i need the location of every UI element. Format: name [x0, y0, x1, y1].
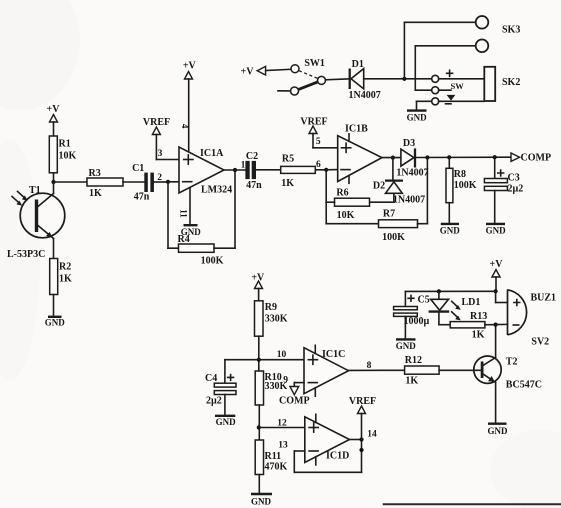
svg-text:+V: +V [183, 61, 197, 72]
svg-text:R9: R9 [265, 302, 277, 313]
svg-text:R7: R7 [383, 209, 395, 220]
op-amp IC1B [338, 124, 382, 184]
+V symbol (above R9) [251, 273, 265, 301]
svg-text:330K: 330K [265, 314, 288, 325]
svg-text:10K: 10K [337, 210, 355, 221]
+V symbol (above BUZ1) [490, 259, 504, 291]
resistor R3 [87, 168, 144, 199]
svg-text:VREF: VREF [349, 396, 376, 407]
wire node J to C4 [225, 360, 259, 384]
ground below C3 [486, 224, 507, 235]
svg-text:+V: +V [241, 67, 255, 78]
pin 8 wire (IC1C output) [349, 361, 405, 371]
svg-text:R5: R5 [282, 154, 294, 165]
wire buzzer - to node P [496, 323, 508, 325]
node L (IC1D output) [359, 437, 363, 441]
svg-text:R1: R1 [59, 139, 71, 150]
jack plug pin - [432, 98, 485, 105]
VREF symbol (IC1D output) [349, 396, 376, 440]
wire IC1A output to C2 [224, 169, 245, 171]
wire +V rail to C5/LED [405, 290, 495, 292]
feedback wire node E down to R7 [326, 170, 378, 224]
svg-text:C4: C4 [205, 373, 217, 384]
capacitor C5 [394, 291, 430, 339]
transistor T1 phototransistor [7, 182, 65, 260]
wire SW1 to D1 [326, 79, 350, 80]
node A (R1/R3/T1 collector junction) [51, 180, 55, 184]
svg-text:100K: 100K [201, 256, 224, 267]
svg-text:C5: C5 [418, 295, 430, 306]
op-amp IC1A [179, 147, 232, 196]
svg-text:100K: 100K [454, 180, 477, 191]
node K (R10/R11 divider tap) [257, 425, 261, 429]
svg-text:IC1B: IC1B [345, 124, 368, 135]
svg-text:R4: R4 [178, 234, 190, 245]
capacitor C3 [484, 157, 523, 223]
svg-text:2µ2: 2µ2 [206, 396, 222, 407]
svg-text:1N4007: 1N4007 [396, 167, 428, 178]
svg-text:IC1D: IC1D [326, 451, 349, 462]
op-amp IC1C [304, 345, 349, 396]
svg-text:SK2: SK2 [502, 77, 520, 88]
ground below R11 [251, 494, 272, 507]
VREF symbol (IC1B pin 5) [300, 117, 337, 148]
svg-text:1K: 1K [405, 376, 418, 387]
svg-text:GND: GND [486, 225, 507, 235]
node C (IC1A output) [233, 168, 237, 172]
ground at SK2 - pin [407, 101, 432, 122]
svg-text:2µ2: 2µ2 [508, 184, 524, 195]
pin 11 wire and label [179, 188, 191, 225]
svg-text:1N4007: 1N4007 [393, 195, 425, 206]
resistor R5 [281, 154, 327, 190]
svg-text:10K: 10K [59, 151, 77, 162]
R4 to output wire [214, 170, 235, 248]
svg-text:9: 9 [283, 376, 288, 386]
svg-text:D1: D1 [352, 59, 364, 70]
svg-text:SK3: SK3 [502, 25, 520, 36]
resistor R6 [326, 188, 369, 222]
ground below T2 [488, 424, 509, 436]
svg-text:C3: C3 [508, 173, 520, 184]
svg-text:47n: 47n [246, 180, 262, 191]
svg-text:LD1: LD1 [462, 297, 481, 308]
svg-text:IC1A: IC1A [200, 148, 224, 159]
ground at IC1A pin 11 [181, 225, 202, 237]
ground below C5 [396, 339, 417, 351]
svg-text:L-53P3C: L-53P3C [7, 249, 45, 260]
svg-text:BC547C: BC547C [506, 380, 542, 391]
svg-text:SV2: SV2 [531, 337, 549, 348]
node B (C1/pin2/R4 junction) [166, 180, 170, 184]
light arrows into T1 [12, 192, 28, 206]
resistor R1 [49, 136, 76, 182]
resistor R12 [405, 355, 481, 387]
diode D1 [348, 59, 431, 101]
capacitor C2 [245, 151, 280, 191]
resistor R4 [178, 234, 224, 267]
jack plug pin SW [415, 81, 464, 101]
wire node E to IC1B [326, 169, 338, 171]
svg-text:1000µ: 1000µ [404, 316, 430, 327]
COMP output arrow [511, 153, 551, 164]
svg-text:100K: 100K [382, 232, 405, 243]
node G (D3 cathode / R7) [425, 155, 429, 159]
node O (LED top) [437, 289, 441, 293]
resistor R7 [379, 158, 428, 244]
svg-text:D2: D2 [373, 181, 385, 192]
T2 collector wire [495, 325, 497, 358]
svg-text:13: 13 [278, 441, 288, 451]
svg-text:R13: R13 [470, 311, 487, 322]
resistor R8 [446, 157, 477, 223]
wire IC1D output [350, 439, 362, 441]
wire node N to buzzer + [496, 291, 508, 302]
feedback wire node B down to R4 [167, 182, 169, 248]
node E (IC1B inverting input) [324, 168, 328, 172]
wire D3 to COMP [415, 156, 511, 158]
node P (R13/buzzer-/collector) [494, 323, 498, 327]
buzzer BUZ1 [508, 290, 557, 348]
page border fragment (bottom right) [383, 503, 561, 505]
svg-text:R11: R11 [265, 451, 282, 462]
IC1D feedback wire (output to pin 13) [294, 440, 361, 473]
node J (R9/R10 divider tap) [257, 358, 261, 362]
wire node A to R3 [54, 181, 88, 183]
diode D3 [396, 138, 428, 178]
svg-text:C1: C1 [132, 163, 144, 174]
svg-text:COMP: COMP [279, 395, 310, 406]
svg-text:R3: R3 [89, 168, 101, 179]
resistor R10 [255, 371, 287, 440]
transistor T2 [474, 356, 542, 391]
svg-text:GND: GND [216, 417, 237, 427]
svg-text:GND: GND [396, 341, 417, 351]
svg-text:LM324: LM324 [201, 185, 232, 196]
svg-text:GND: GND [488, 426, 509, 436]
svg-text:R6: R6 [336, 188, 348, 199]
svg-text:IC1C: IC1C [322, 349, 345, 360]
resistor R13 [439, 311, 496, 341]
socket SK2 [484, 67, 520, 101]
VREF symbol (IC1A pin 3) [143, 117, 179, 160]
LED LD1 [429, 291, 481, 324]
svg-text:GND: GND [251, 497, 272, 507]
svg-text:VREF: VREF [300, 117, 327, 128]
COMP input arrow (IC1C pin 9) [279, 383, 310, 407]
svg-text:GND: GND [407, 113, 428, 123]
svg-text:R8: R8 [454, 169, 466, 180]
op-amp IC1D [305, 414, 350, 465]
node D (+V rail / SK3 junction) [402, 77, 406, 81]
svg-text:10: 10 [277, 350, 287, 360]
resistor R2 [50, 259, 72, 317]
svg-text:D3: D3 [403, 138, 415, 149]
svg-text:8: 8 [367, 361, 372, 371]
pin 10 wire to IC1C [259, 350, 304, 360]
svg-text:1N4007: 1N4007 [348, 90, 380, 101]
ground below R8 [440, 224, 461, 235]
pin 12 wire to IC1D [259, 419, 305, 429]
svg-text:GND: GND [45, 318, 66, 328]
+V rail symbol (above R1) [47, 104, 61, 136]
svg-text:14: 14 [367, 430, 377, 440]
node M (feedback junction) [359, 448, 363, 452]
svg-text:47n: 47n [134, 192, 150, 203]
svg-text:BUZ1: BUZ1 [531, 293, 557, 304]
svg-text:4: 4 [180, 124, 190, 129]
svg-text:6: 6 [316, 160, 321, 170]
+V symbol (IC1A pin 4) [183, 61, 197, 152]
svg-text:3: 3 [158, 149, 163, 159]
svg-text:1: 1 [241, 161, 246, 171]
svg-text:1K: 1K [472, 329, 485, 340]
ground below C4 [215, 416, 236, 427]
diode D2 [370, 158, 426, 206]
svg-text:5: 5 [316, 137, 321, 147]
svg-text:R2: R2 [59, 262, 71, 273]
svg-text:1K: 1K [281, 178, 294, 189]
node H (R8 top) [447, 155, 451, 159]
svg-text:SW1: SW1 [304, 58, 325, 69]
+V symbol (left arrow feeding SW1) [241, 66, 291, 77]
capacitor C1 [132, 163, 168, 203]
T2 emitter wire [495, 383, 497, 424]
svg-text:2: 2 [157, 173, 162, 183]
svg-text:R12: R12 [405, 355, 422, 366]
node I (C3 top) [493, 155, 497, 159]
resistor R9 [255, 301, 288, 371]
svg-text:12: 12 [277, 419, 287, 429]
ground below R2 [45, 317, 66, 328]
svg-text:+V: +V [490, 259, 504, 270]
svg-text:T2: T2 [506, 357, 518, 368]
svg-text:COMP: COMP [521, 153, 552, 164]
node N (+V / buzzer junction) [494, 289, 498, 293]
svg-text:11: 11 [179, 209, 189, 218]
svg-text:470K: 470K [265, 462, 288, 473]
jack plug pin + [432, 70, 485, 82]
svg-text:SW: SW [451, 81, 465, 91]
svg-text:1K: 1K [59, 274, 72, 285]
svg-text:GND: GND [440, 225, 461, 235]
capacitor C4 [205, 373, 236, 415]
svg-text:C2: C2 [246, 151, 258, 162]
svg-text:1K: 1K [89, 188, 102, 199]
wire output to D3 [382, 157, 401, 159]
resistor R11 [255, 440, 287, 494]
svg-text:T1: T1 [29, 185, 41, 196]
node F (IC1B output) [391, 156, 395, 160]
socket SK3 [404, 16, 520, 90]
switch SW1 [278, 58, 326, 95]
wire node B to IC1A inverting input [168, 181, 179, 183]
